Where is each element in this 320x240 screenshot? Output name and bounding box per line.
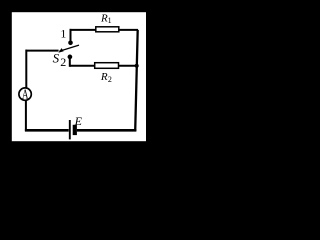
switch S lever bbox=[59, 45, 79, 51]
svg-text:S: S bbox=[53, 51, 60, 66]
battery E long plate bbox=[69, 120, 71, 139]
battery E short thick plate bbox=[73, 125, 77, 135]
svg-text:R: R bbox=[100, 71, 108, 83]
wire contact1 riser to R1 bbox=[70, 29, 97, 31]
wire contact2 to R2 bbox=[70, 65, 95, 67]
ammeter A bbox=[19, 88, 31, 102]
svg-text:E: E bbox=[74, 114, 83, 128]
svg-text:2: 2 bbox=[60, 55, 66, 69]
wire R2 to right wire bbox=[119, 65, 138, 67]
svg-text:1: 1 bbox=[60, 27, 66, 41]
resistor R2 box bbox=[95, 63, 119, 69]
contact dot 2 bbox=[68, 55, 73, 60]
wire drop from contact 2 bbox=[69, 57, 71, 67]
svg-text:2: 2 bbox=[108, 75, 112, 84]
frame background bbox=[0, 0, 157, 154]
label R1 bbox=[100, 12, 112, 25]
wire left vertical lower bbox=[25, 101, 27, 131]
wire riser from contact 1 bbox=[70, 29, 72, 43]
wire R1 to right corner bbox=[119, 29, 138, 31]
svg-text:1: 1 bbox=[108, 16, 112, 25]
switch S pivot arrowhead bbox=[58, 48, 63, 53]
wire top-left horizontal (node to switch pivot) bbox=[26, 50, 59, 52]
svg-text:A: A bbox=[22, 88, 29, 102]
wire right vertical bbox=[135, 30, 138, 131]
wire bottom right segment bbox=[77, 129, 136, 132]
node junction R2/right wire bbox=[135, 64, 139, 68]
white drawing area bbox=[12, 12, 146, 141]
contact dot 1 bbox=[68, 41, 73, 46]
label R2 bbox=[100, 71, 112, 84]
wire bottom left segment bbox=[25, 129, 69, 132]
wire left vertical upper bbox=[25, 50, 27, 88]
resistor R1 box bbox=[96, 27, 119, 32]
